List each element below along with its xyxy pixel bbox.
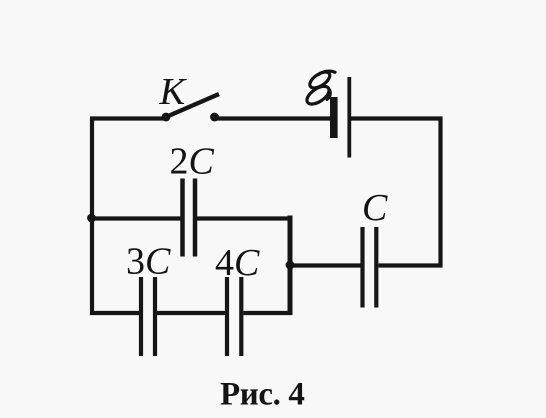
- svg-text:3C: 3C: [126, 241, 171, 283]
- svg-text:4C: 4C: [215, 242, 260, 284]
- svg-text:2C: 2C: [170, 141, 215, 183]
- svg-text:Рис. 4: Рис. 4: [220, 377, 304, 413]
- svg-text:C: C: [362, 187, 388, 229]
- svg-text:K: K: [159, 71, 188, 113]
